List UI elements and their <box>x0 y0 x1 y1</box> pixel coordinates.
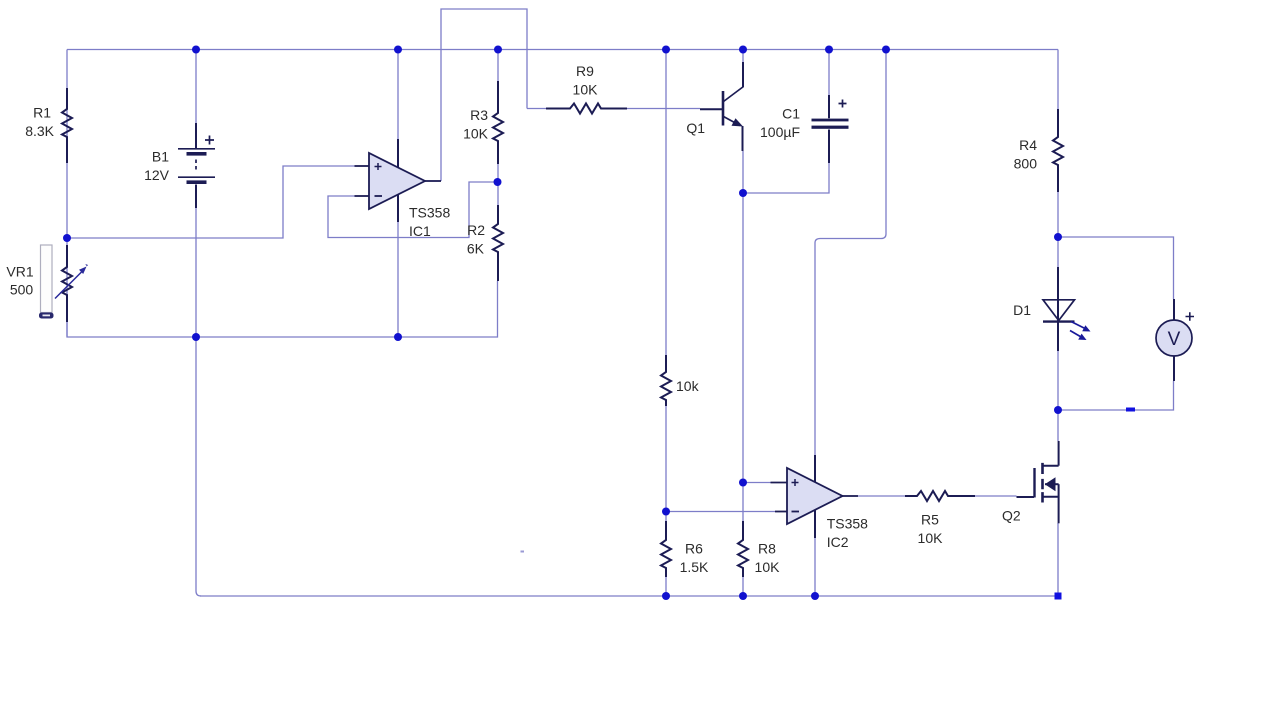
svg-text:B1: B1 <box>152 149 169 165</box>
svg-text:R2: R2 <box>467 222 485 238</box>
svg-text:R4: R4 <box>1019 137 1037 153</box>
svg-text:8.3K: 8.3K <box>25 123 54 139</box>
svg-text:V: V <box>1168 329 1181 350</box>
svg-text:R8: R8 <box>758 541 776 557</box>
svg-text:IC2: IC2 <box>827 534 849 550</box>
svg-text:10k: 10k <box>676 378 700 394</box>
svg-text:1.5K: 1.5K <box>680 559 709 575</box>
svg-text:10K: 10K <box>755 559 781 575</box>
svg-text:D1: D1 <box>1013 302 1031 318</box>
svg-text:10K: 10K <box>463 126 489 142</box>
svg-text:C1: C1 <box>782 106 800 122</box>
svg-text:10K: 10K <box>573 82 599 98</box>
svg-text:Q2: Q2 <box>1002 508 1021 524</box>
svg-text:500: 500 <box>10 282 34 298</box>
svg-text:6K: 6K <box>467 241 485 257</box>
svg-text:R9: R9 <box>576 63 594 79</box>
svg-text:R1: R1 <box>33 105 51 121</box>
svg-text:R3: R3 <box>470 107 488 123</box>
svg-text:IC1: IC1 <box>409 223 431 239</box>
svg-text:800: 800 <box>1014 156 1038 172</box>
svg-text:VR1: VR1 <box>6 264 33 280</box>
svg-text:R5: R5 <box>921 512 939 528</box>
svg-text:10K: 10K <box>918 530 944 546</box>
svg-text:R6: R6 <box>685 541 703 557</box>
svg-text:12V: 12V <box>144 167 170 183</box>
svg-text:TS358: TS358 <box>409 205 450 221</box>
svg-text:Q1: Q1 <box>686 120 705 136</box>
svg-text:100µF: 100µF <box>760 124 800 140</box>
svg-text:TS358: TS358 <box>827 516 868 532</box>
